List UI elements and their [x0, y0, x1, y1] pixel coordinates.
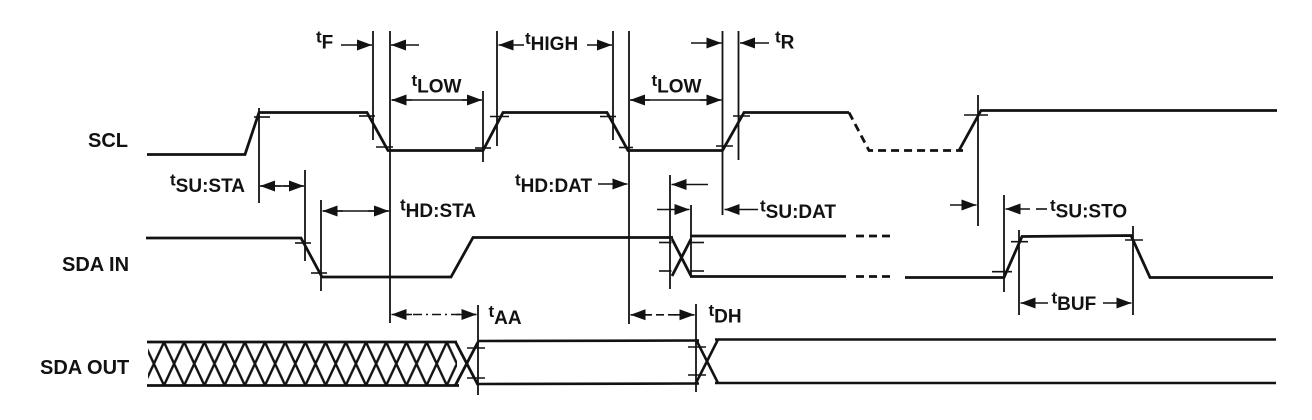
threshold tick SCL fall 2 top: [600, 116, 616, 118]
arrow tSU:STA shaft: [261, 185, 303, 187]
guide line at SDA IN fall end (tHD:STA left): [320, 200, 322, 291]
threshold tick SCL fall 2 bottom: [619, 147, 633, 149]
threshold tick SCL rise 3 bottom: [716, 145, 733, 147]
SDA OUT valid-data band between tAA and tDH: [478, 341, 699, 385]
guide line at SCL fall 2 end (tHD:DAT left, tLOW2 left, tDH left): [628, 31, 630, 324]
guide line at SDA IN STOP high start (tBUF left): [1018, 230, 1020, 315]
guide line at SCL fall 1 start (tF left): [372, 31, 374, 140]
arrow tLOW shaft: [392, 99, 481, 101]
SDA IN low segment dashed continuation: [856, 275, 895, 278]
SDA IN high segment dashed continuation: [856, 235, 895, 238]
arrow tHIGH left head: [499, 44, 525, 46]
svg-text:SCL: SCL: [88, 130, 128, 152]
SDA IN data-change X crossing: [672, 239, 691, 276]
guide line at SDA IN STOP fall (tBUF right): [1132, 226, 1134, 315]
arrow tHD:STA left head: [323, 210, 344, 212]
threshold tick SDA IN X bottom left: [659, 270, 672, 272]
arrow tAA left head: [392, 314, 413, 316]
SDA IN low resume and STOP pulse (rise, high, fall, low): [905, 236, 1273, 278]
svg-text:tHD:DAT: tHD:DAT: [515, 171, 592, 198]
threshold tick SDA OUT tAA X top: [467, 347, 485, 349]
threshold tick SCL rise 2 top: [490, 116, 509, 118]
svg-text:tR: tR: [775, 28, 795, 54]
guide line at SDA IN STOP rise (tSU:STO right): [1003, 195, 1005, 292]
svg-text:tBUF: tBUF: [1052, 289, 1097, 316]
arrow tSU:STO tail dash: [1036, 208, 1047, 210]
SDA OUT band outline over crosshatch: [147, 342, 459, 386]
arrow tLOW2 right head: [700, 99, 722, 101]
arrow tHD:STA right head: [368, 210, 389, 212]
arrow tF pointing left to fall end: [391, 44, 419, 46]
threshold tick SDA IN STOP rise bottom: [992, 271, 1012, 273]
guide line at SCL rise 3 start (tLOW2 right, tSU:DAT right): [722, 31, 724, 215]
SDA OUT transition X at tDH: [696, 340, 718, 384]
arrow tAA dash-dot shaft: [394, 314, 476, 316]
SCL final rise and high segment: [959, 111, 1277, 151]
arrow tLOW2 shaft: [631, 99, 720, 101]
threshold tick SDA OUT tDH X top: [688, 346, 706, 348]
arrow tBUF right head: [1103, 302, 1132, 304]
svg-text:tF: tF: [316, 28, 333, 54]
guide line at SCL rise 3 end (tR): [738, 31, 740, 160]
SCL waveform dashed fall and dashed low segment: [849, 113, 963, 151]
threshold tick SDA IN STOP rise top: [1011, 241, 1028, 243]
SCL waveform solid segment (low, rise, high, fall, low, rise, high, fall, low, rise, high): [147, 113, 849, 155]
threshold tick SCL fall 1 top: [359, 115, 375, 117]
threshold tick SDA OUT tDH X bottom: [688, 374, 706, 376]
svg-text:tSU:DAT: tSU:DAT: [760, 197, 836, 224]
arrow tHD:STA shaft: [323, 210, 388, 212]
arrow tLOW right head: [462, 99, 482, 101]
svg-text:tSU:STA: tSU:STA: [170, 171, 245, 198]
arrow pointing right to SCL rise 3 (tR pair): [691, 42, 722, 44]
arrow tSU:STA left head: [260, 185, 281, 187]
arrow tHD:DAT pointing right to SCL fall 2: [598, 183, 628, 185]
threshold tick SDA IN X bottom right: [692, 270, 705, 272]
guide line at SDA IN X left (tHD:DAT right): [669, 175, 671, 289]
guide line at SCL final rise (tSU:STO left): [977, 95, 979, 226]
arrow tR pointing left to rise end: [740, 42, 769, 44]
arrow tDH left head: [631, 314, 652, 316]
arrow tDH right head: [674, 314, 695, 316]
arrow tF pointing right to fall start: [341, 44, 372, 46]
SDA IN high segment right of X: [690, 235, 846, 238]
arrow tAA right head: [456, 314, 477, 316]
svg-text:tDH: tDH: [709, 301, 742, 328]
threshold tick SDA IN X top right: [692, 242, 705, 244]
SDA OUT undefined-data crosshatch region: [148, 342, 457, 386]
svg-text:tLOW: tLOW: [412, 71, 462, 97]
threshold tick SCL rise 1 top: [254, 116, 270, 118]
SDA OUT valid-data band right section: [715, 340, 1276, 384]
guide line at SDA IN X right (tSU:DAT left): [690, 205, 692, 277]
svg-text:SDA IN: SDA IN: [62, 254, 129, 276]
arrow tLOW left head: [392, 99, 413, 101]
threshold tick SDA IN fall bottom: [311, 272, 327, 274]
arrow tLOW2 left head: [630, 99, 650, 101]
guide line at SCL fall 2 start (tHIGH right): [612, 31, 614, 140]
svg-text:tAA: tAA: [489, 302, 522, 329]
arrow tBUF left head: [1021, 302, 1049, 304]
arrow tSU:DAT pointing right to data valid: [657, 209, 690, 211]
guide line at SCL fall 1 end (tF right, tLOW left, tHD:STA right, tAA left): [389, 31, 391, 323]
svg-text:tSU:STO: tSU:STO: [1050, 196, 1127, 223]
SDA IN low segment right of X: [690, 275, 846, 278]
threshold tick SCL rise 2 bottom: [475, 147, 491, 149]
svg-text:tHD:STA: tHD:STA: [400, 196, 476, 223]
threshold tick SDA OUT tAA X bottom: [467, 377, 485, 379]
threshold tick SCL rise 3 top: [733, 115, 750, 117]
svg-text:SDA OUT: SDA OUT: [40, 357, 129, 379]
arrow tSU:DAT pointing left to SCL rise 3: [725, 209, 759, 211]
SDA OUT transition X at tAA: [456, 342, 479, 385]
threshold tick SCL final rise top: [964, 114, 988, 116]
guide line at SDA IN fall start (tSU:STA right): [304, 170, 306, 261]
svg-text:tHIGH: tHIGH: [525, 29, 578, 55]
guide line at SDA OUT tDH transition: [695, 304, 697, 392]
threshold tick SDA IN X top left: [659, 242, 672, 244]
arrow tSU:STO pointing left to SDA STOP rise: [1006, 208, 1031, 210]
threshold tick SDA IN STOP fall top: [1125, 239, 1143, 241]
threshold tick SDA IN fall top: [295, 242, 311, 244]
arrow tHIGH right head: [587, 44, 612, 46]
guide line at SCL rise 2 start (tLOW right): [482, 91, 484, 162]
arrow tSU:STO pointing right to SCL final rise: [950, 204, 977, 206]
threshold tick SCL fall 1 bottom: [376, 146, 393, 148]
guide line at SCL rise 1 (tSU:STA left): [258, 108, 260, 203]
arrow tHD:DAT pointing left to data change: [672, 184, 709, 186]
arrow tDH dashed shaft: [632, 314, 694, 316]
SDA IN waveform left segment (high, fall at START, low, rise, high): [146, 238, 673, 278]
guide line at SCL rise 2 end (tHIGH left): [496, 31, 498, 146]
guide line at SDA OUT tAA transition: [477, 305, 479, 395]
svg-text:tLOW: tLOW: [652, 71, 702, 97]
arrow tSU:STA right head: [283, 185, 304, 187]
